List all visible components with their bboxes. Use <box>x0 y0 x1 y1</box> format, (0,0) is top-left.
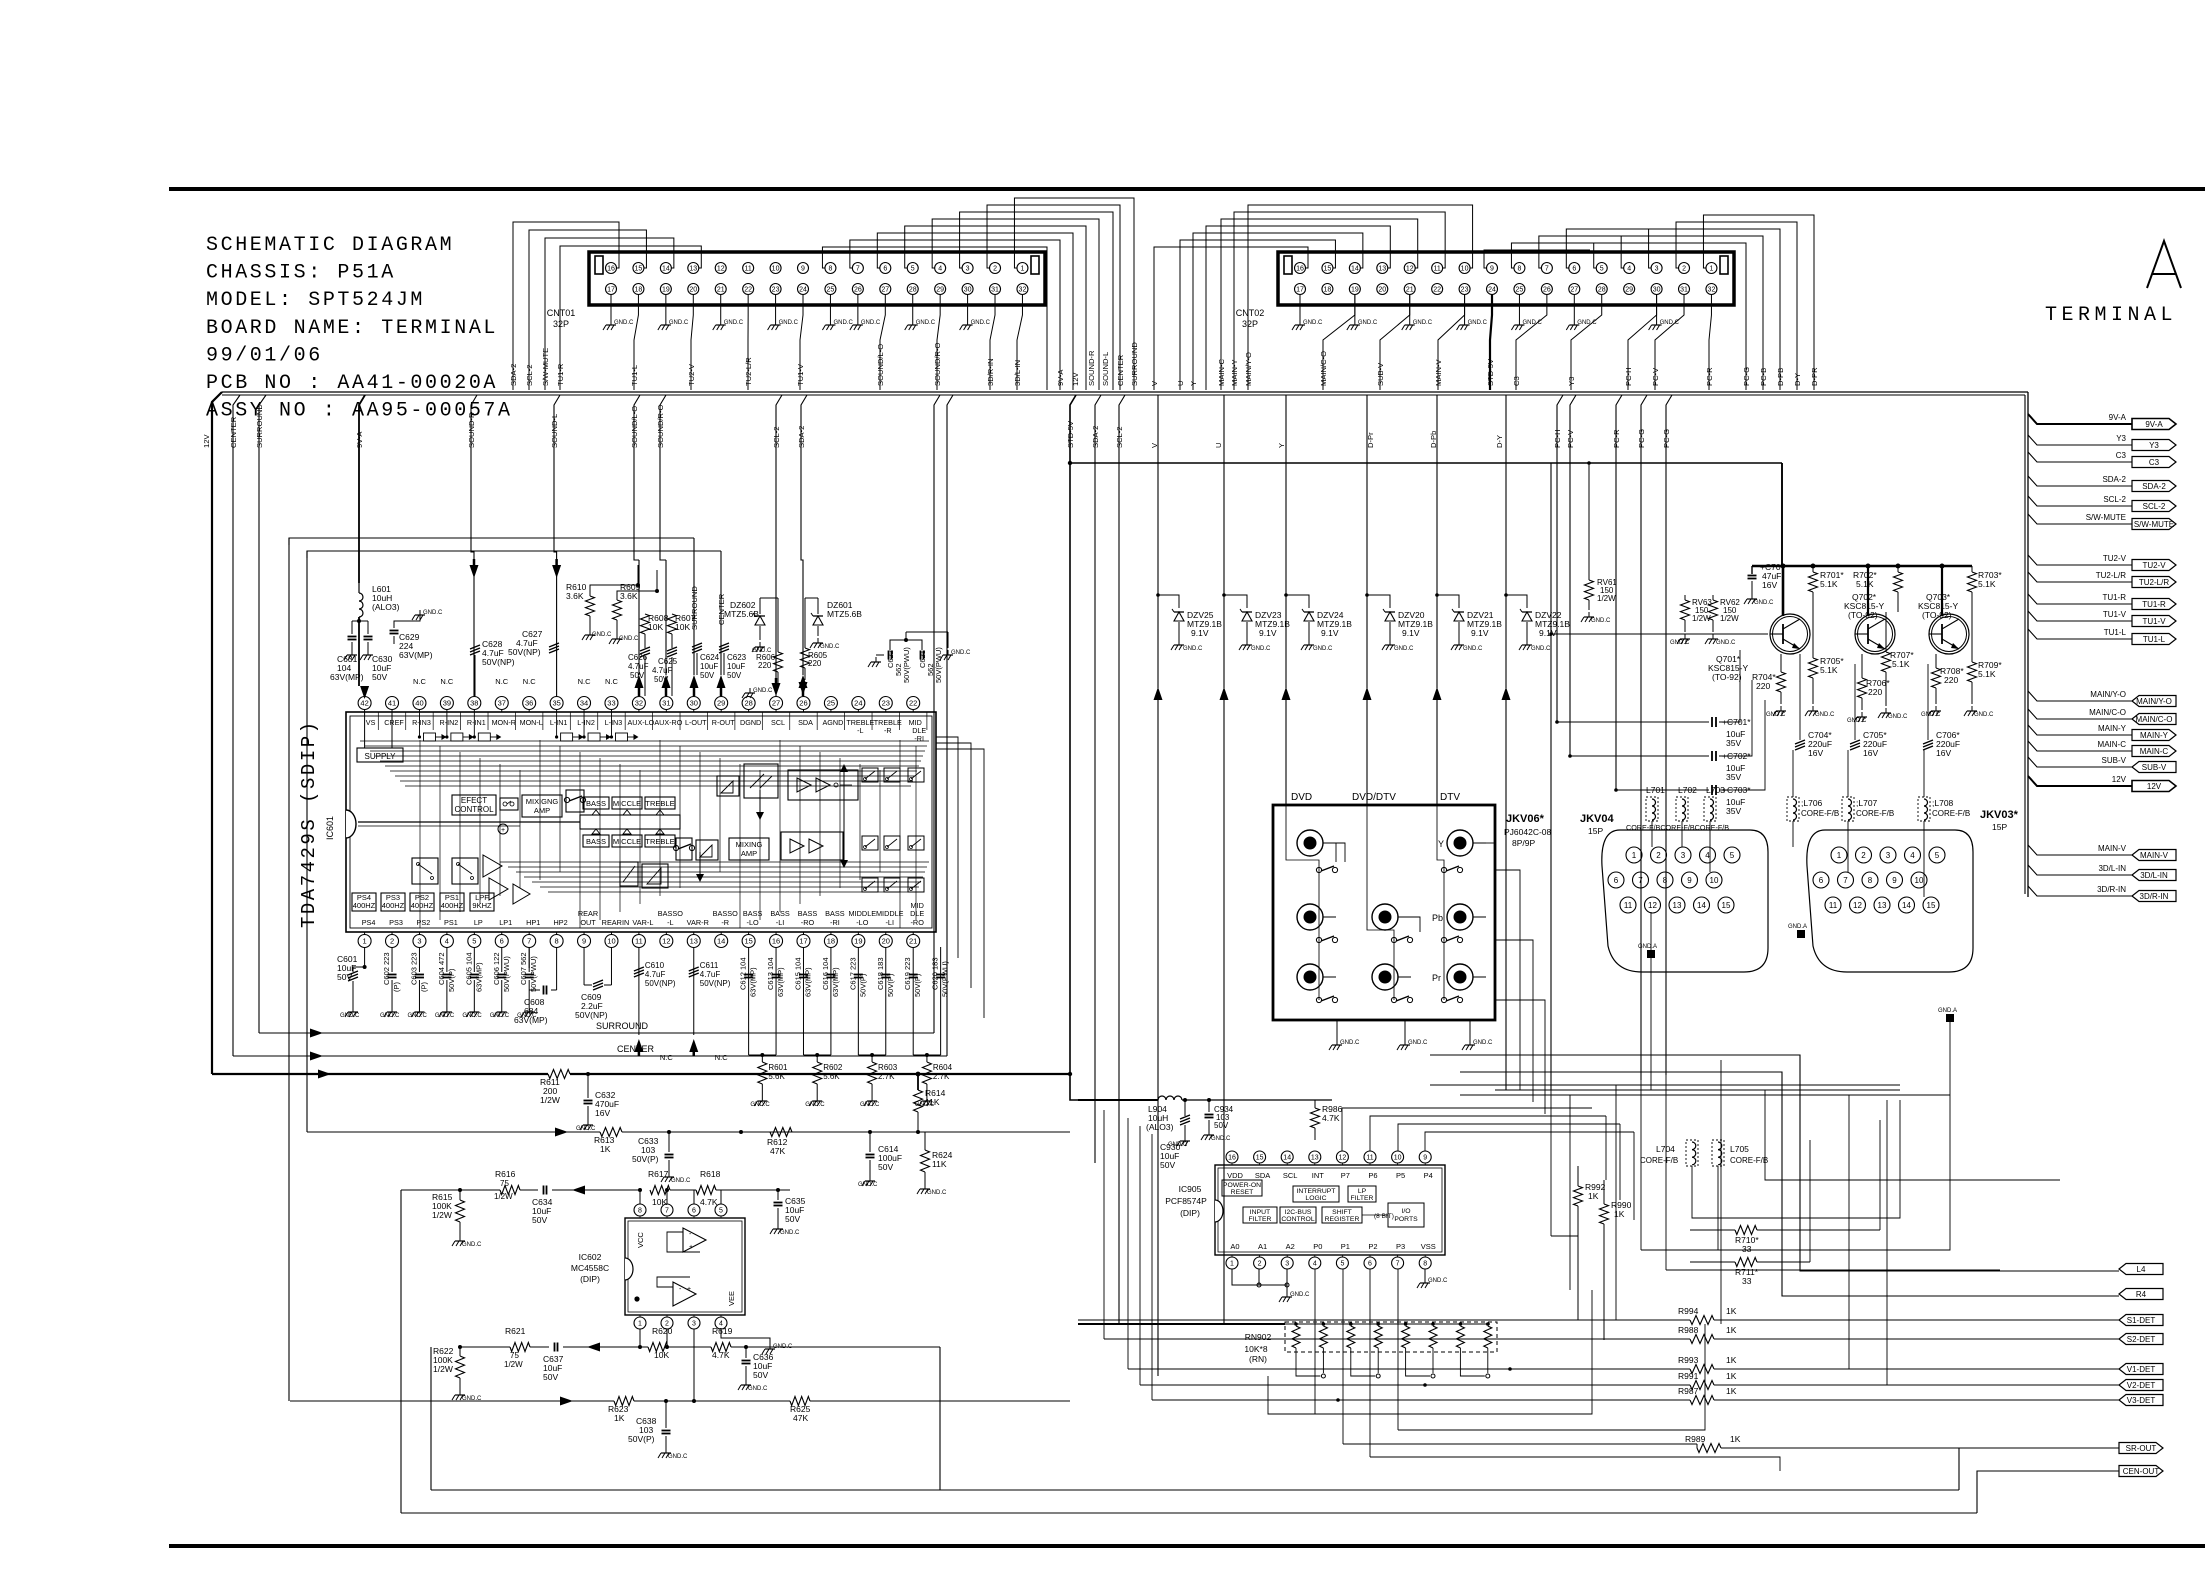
ground under connector pin <box>610 294 612 320</box>
resistor R605 <box>801 648 810 668</box>
svg-text:9: 9 <box>1892 876 1897 885</box>
IC601 pin 40 <box>413 697 426 710</box>
svg-text:1: 1 <box>1020 266 1024 273</box>
svg-text:15: 15 <box>1927 901 1936 910</box>
IC601 interior bus lines horizontal <box>360 740 929 742</box>
capacitor C615 / C616 and resistor R602 <box>802 947 804 1055</box>
svg-text:GND.C: GND.C <box>1463 646 1483 652</box>
IC601 pin 26 <box>797 697 810 710</box>
svg-text:5.1K: 5.1K <box>1978 669 1996 679</box>
resistor R990 <box>1600 1204 1609 1224</box>
svg-text:9.1V: 9.1V <box>1539 628 1557 638</box>
terminal flag CEN-OUT <box>2119 1466 2163 1477</box>
svg-text:VDD: VDD <box>1227 1171 1243 1180</box>
svg-text:R616: R616 <box>495 1169 516 1179</box>
svg-text:GND.C: GND.C <box>780 1230 800 1236</box>
svg-text:DVD/DTV: DVD/DTV <box>1352 792 1396 803</box>
svg-text:9.1V: 9.1V <box>1471 628 1489 638</box>
capacitor C621 <box>920 651 922 660</box>
svg-text:GND.A: GND.A <box>1788 924 1807 930</box>
IC601 vertical arrow pair right <box>843 772 845 860</box>
svg-text:2: 2 <box>993 266 997 273</box>
svg-text:7: 7 <box>1545 266 1549 273</box>
svg-text:CENTER: CENTER <box>617 1044 655 1054</box>
IC905 pin 8 <box>1419 1257 1431 1269</box>
svg-text:R602: R602 <box>823 1063 843 1072</box>
svg-text:35V: 35V <box>1726 772 1741 782</box>
svg-text:16: 16 <box>1296 266 1304 273</box>
fat arrow <box>1157 595 1159 688</box>
svg-text:12: 12 <box>1853 901 1862 910</box>
svg-text:TERMINAL: TERMINAL <box>2045 304 2177 327</box>
svg-text:R-IN1: R-IN1 <box>467 718 486 727</box>
svg-text:220: 220 <box>758 661 772 670</box>
svg-text:4: 4 <box>938 266 942 273</box>
capacitor C624 <box>692 643 702 647</box>
capacitor C622 <box>888 651 890 660</box>
IC601 pin 23 <box>879 697 892 710</box>
svg-text:18: 18 <box>827 937 835 946</box>
svg-text:TU1-L: TU1-L <box>2104 628 2127 637</box>
capacitor C629 <box>394 614 420 628</box>
svg-text:N.C: N.C <box>523 677 537 686</box>
svg-text:SDA-2: SDA-2 <box>509 364 518 386</box>
wire <box>513 222 619 390</box>
svg-text:VAR-R: VAR-R <box>687 918 709 927</box>
CNT01 pin 1 <box>1017 263 1028 274</box>
IC601 switch sq left <box>412 858 438 884</box>
resistor R610 <box>586 596 595 616</box>
svg-text:MAIN-C: MAIN-C <box>1217 358 1226 386</box>
svg-text:21: 21 <box>909 937 917 946</box>
capacitor C611 <box>693 947 695 1035</box>
wire <box>1649 229 1780 390</box>
CNT02 pin 3 <box>1651 263 1662 274</box>
svg-text:28: 28 <box>909 287 917 294</box>
terminal flag 3D/R-IN <box>2132 891 2176 902</box>
svg-text:Y3: Y3 <box>2149 441 2159 450</box>
svg-text:-RI: -RI <box>830 918 840 927</box>
svg-text:1K: 1K <box>600 1144 611 1154</box>
svg-text:(ALO3): (ALO3) <box>372 602 400 612</box>
svg-text:50V(PWU): 50V(PWU) <box>502 956 511 992</box>
svg-text:MON-L: MON-L <box>520 718 543 727</box>
svg-text:14: 14 <box>717 937 725 946</box>
RCA jack <box>1297 904 1323 930</box>
svg-text:30: 30 <box>964 287 972 294</box>
wire columns PC-H PC-V PC-R PC-G PC-G down <box>1557 395 1563 722</box>
CNT01 pin 8 <box>825 263 836 274</box>
svg-text:14: 14 <box>662 266 670 273</box>
svg-text:1/2W: 1/2W <box>433 1364 453 1374</box>
svg-text:25: 25 <box>827 287 835 294</box>
JKV04 pin 14 <box>1694 897 1710 913</box>
IC601 pin 41 <box>386 697 399 710</box>
svg-text:GND.C: GND.C <box>1313 646 1333 652</box>
svg-text:Pr: Pr <box>1432 973 1441 983</box>
CNT02 pin 1 <box>1706 263 1717 274</box>
terminal flag L4 <box>2119 1264 2163 1275</box>
svg-text:CORE-F/B: CORE-F/B <box>1801 809 1839 818</box>
wire RN902 pair join <box>1296 1348 1320 1376</box>
svg-text:50V: 50V <box>700 671 715 680</box>
switch contact <box>1391 997 1396 1002</box>
svg-text:220: 220 <box>1868 687 1882 697</box>
svg-text:PC-H: PC-H <box>1624 367 1633 386</box>
svg-text:50V(PWU): 50V(PWU) <box>934 647 943 683</box>
svg-text:35V: 35V <box>1726 806 1741 816</box>
ground under connector pin <box>1573 294 1575 320</box>
svg-text:GND.C: GND.C <box>753 688 773 694</box>
CNT02 pin 20 <box>1377 284 1388 295</box>
svg-text:33: 33 <box>1742 1244 1752 1254</box>
CNT01 pin 23 <box>770 284 781 295</box>
svg-text:7: 7 <box>1396 1261 1400 1268</box>
svg-text:C3: C3 <box>2149 458 2160 467</box>
capacitor C930 <box>1183 1098 1187 1102</box>
svg-text:30: 30 <box>690 699 698 708</box>
svg-text:14: 14 <box>1351 266 1359 273</box>
svg-text:GND.C: GND.C <box>1413 320 1433 326</box>
svg-text:MTZ5.6B: MTZ5.6B <box>827 609 862 619</box>
svg-text:31: 31 <box>991 287 999 294</box>
JKV04 pin 12 <box>1645 897 1661 913</box>
svg-text:CONTROL: CONTROL <box>454 805 494 814</box>
svg-text:GND.C: GND.C <box>916 320 936 326</box>
wire CEN-OUT feed <box>1370 1457 1780 1471</box>
wire CENTER line <box>233 1055 947 1057</box>
terminal flag TU1-V <box>2132 616 2176 627</box>
JKV03 pin 4 <box>1905 847 1921 863</box>
svg-text:16: 16 <box>772 937 780 946</box>
svg-text:+: + <box>501 827 505 834</box>
JKV04 pin 1 <box>1626 847 1642 863</box>
svg-text:63V(MP): 63V(MP) <box>776 967 785 997</box>
svg-text:(DIP): (DIP) <box>1180 1208 1200 1218</box>
svg-text:3D/L-IN: 3D/L-IN <box>2098 864 2126 873</box>
svg-text:;L708: ;L708 <box>1932 798 1954 808</box>
svg-text:8: 8 <box>1423 1261 1427 1268</box>
RN902 resistor 4 <box>1376 1322 1380 1326</box>
bus rail horizontal <box>222 391 2028 393</box>
CNT02 pin 24 <box>1487 284 1498 295</box>
terminal flag 12V <box>2132 781 2176 792</box>
svg-text:9.1V: 9.1V <box>1402 628 1420 638</box>
svg-text:C620 183: C620 183 <box>931 957 940 990</box>
wire RV61 top to 12V line <box>1588 463 1590 560</box>
capacitor C706 <box>1923 740 1933 744</box>
ground under connector pin <box>1518 294 1520 320</box>
svg-text:11K: 11K <box>925 1097 940 1107</box>
CNT01 pin 30 <box>962 284 973 295</box>
svg-text:1/2W: 1/2W <box>504 1360 523 1369</box>
svg-text:13: 13 <box>1378 266 1386 273</box>
resistor R606 <box>774 652 783 672</box>
CNT01 pin 12 <box>715 263 726 274</box>
svg-text:GND.C: GND.C <box>1340 1040 1360 1046</box>
IC601 pin 29 <box>715 697 728 710</box>
svg-text:SOUND-R: SOUND-R <box>1087 350 1096 386</box>
svg-text:MAIN-Y: MAIN-Y <box>2140 731 2169 740</box>
JKV04 pin 15 <box>1718 897 1734 913</box>
JKV03 pin 1 <box>1831 847 1847 863</box>
svg-text:32P: 32P <box>553 319 569 329</box>
resistor R703 <box>1971 566 1973 572</box>
CNT01 pin 3 <box>962 263 973 274</box>
svg-text:12: 12 <box>1406 266 1414 273</box>
svg-text:220: 220 <box>808 659 822 668</box>
svg-text:21: 21 <box>1406 287 1414 294</box>
svg-text:4.7K: 4.7K <box>712 1350 730 1360</box>
wire RN902 pair join <box>1406 1348 1430 1376</box>
terminal flag TU1-L <box>2132 634 2176 645</box>
svg-text:C604 472: C604 472 <box>437 952 446 985</box>
switch contact <box>1391 937 1396 942</box>
IC601 pin 15 <box>742 935 755 948</box>
zener DZV25 <box>1157 395 1159 595</box>
resistor R614 <box>917 1074 919 1090</box>
svg-text:;L706: ;L706 <box>1801 798 1823 808</box>
svg-text:TU2-V: TU2-V <box>2103 554 2127 563</box>
svg-text:TU1-V: TU1-V <box>2142 617 2166 626</box>
IC601 switch box 1 <box>566 790 584 812</box>
svg-text:A2: A2 <box>1286 1242 1295 1251</box>
svg-text:REARIN: REARIN <box>602 918 630 927</box>
CNT01 pin 24 <box>798 284 809 295</box>
CNT01 pin 22 <box>743 284 754 295</box>
wire SDA-2 col <box>1095 395 1101 1163</box>
svg-text:TU1-R: TU1-R <box>556 363 565 386</box>
svg-text:GND.C: GND.C <box>592 632 612 638</box>
wire SCL-2 column to pin 27 <box>776 395 782 560</box>
svg-text:10: 10 <box>1394 1155 1402 1162</box>
svg-text:S/W-MUTE: S/W-MUTE <box>2086 513 2126 522</box>
terminal flag V2-DET <box>2119 1380 2163 1391</box>
svg-text:C624: C624 <box>700 653 720 662</box>
svg-text:GND.C: GND.C <box>435 1013 455 1019</box>
svg-text:12: 12 <box>717 266 725 273</box>
svg-text:L-OUT: L-OUT <box>685 718 707 727</box>
IC601 down arrows interior <box>759 790 761 812</box>
svg-text:CEN-OUT: CEN-OUT <box>2123 1467 2160 1476</box>
connector JKV03 body <box>1807 830 1973 972</box>
svg-text:3D/L-IN: 3D/L-IN <box>1013 360 1022 386</box>
wire <box>877 233 1073 390</box>
svg-text:37: 37 <box>498 699 506 708</box>
svg-text:400HZ: 400HZ <box>353 901 376 910</box>
IC602 pins top <box>634 1204 646 1216</box>
svg-text:19: 19 <box>854 937 862 946</box>
CNT01 pin 11 <box>743 263 754 274</box>
IC905 SHIFT REGISTER box <box>1322 1207 1362 1223</box>
resistor R705 <box>1812 612 1814 658</box>
svg-text:EFECT: EFECT <box>461 796 487 805</box>
svg-text:23: 23 <box>772 287 780 294</box>
svg-text:PC-B: PC-B <box>1759 368 1768 386</box>
svg-text:P3: P3 <box>1396 1242 1405 1251</box>
wire SURROUND col pin30 <box>693 538 695 675</box>
svg-text:24: 24 <box>799 287 807 294</box>
svg-text:3: 3 <box>1655 266 1659 273</box>
svg-text:5.1K: 5.1K <box>1856 579 1874 589</box>
svg-text:1: 1 <box>1230 1261 1234 1268</box>
arrow on surround line <box>310 1029 323 1038</box>
JKV04 pin 7 <box>1633 872 1649 888</box>
CNT01 pin 4 <box>935 263 946 274</box>
IC601 pin 12 <box>660 935 673 948</box>
IC601 eq band bar <box>580 815 680 829</box>
svg-text:24: 24 <box>1488 287 1496 294</box>
svg-text:20: 20 <box>882 937 890 946</box>
wire y1190 line <box>401 1189 500 1191</box>
switch contact <box>1441 867 1446 872</box>
JKV04 pin 11 <box>1620 897 1636 913</box>
svg-text:SURROUND: SURROUND <box>1130 342 1139 386</box>
JKV04 pin 2 <box>1651 847 1667 863</box>
CNT02 pin 29 <box>1624 284 1635 295</box>
svg-text:26: 26 <box>799 699 807 708</box>
IC602 opamp A triangle <box>683 1228 706 1252</box>
ground under connector pin <box>829 294 831 320</box>
svg-text:12: 12 <box>662 937 670 946</box>
svg-text:1K: 1K <box>1588 1191 1599 1201</box>
JKV03 gnd squares <box>1797 930 1805 938</box>
capacitor C707 <box>1751 566 1753 574</box>
inductors L706 L707 L708 <box>1787 797 1799 821</box>
svg-text:15: 15 <box>635 266 643 273</box>
svg-text:RN902: RN902 <box>1245 1332 1272 1342</box>
zener DZV23 <box>1223 395 1225 595</box>
svg-text:75: 75 <box>500 1179 509 1188</box>
wire bold 12V filter line y1074 <box>212 1073 548 1075</box>
terminal flag TU2-V <box>2132 560 2176 571</box>
svg-text:TU1-V: TU1-V <box>2103 610 2127 619</box>
ground under connector pin <box>912 294 914 320</box>
IC905 LP FILTER box <box>1348 1186 1376 1202</box>
svg-text:Y: Y <box>1189 381 1198 386</box>
CNT01 pin 10 <box>770 263 781 274</box>
svg-text:GND.C: GND.C <box>1921 712 1941 718</box>
IC601 opamp triangles left-mid <box>483 855 502 877</box>
svg-text:14: 14 <box>1902 901 1911 910</box>
svg-text:-LO: -LO <box>747 918 759 927</box>
capacitor C619 / C620 and resistor R604 <box>912 947 914 1055</box>
svg-text:16V: 16V <box>1808 748 1823 758</box>
svg-text:23: 23 <box>882 699 890 708</box>
RN902 resistor 3 <box>1349 1322 1353 1326</box>
CNT02 pin 19 <box>1349 284 1360 295</box>
svg-text:19: 19 <box>1351 287 1359 294</box>
terminal flag V1-DET <box>2119 1364 2163 1375</box>
RCA jack <box>1372 904 1398 930</box>
wire <box>560 246 701 390</box>
svg-text:R621: R621 <box>505 1326 526 1336</box>
svg-text:GND.C: GND.C <box>1847 718 1867 724</box>
svg-text:38: 38 <box>470 699 478 708</box>
svg-text:R603: R603 <box>878 1063 898 1072</box>
svg-text:12V: 12V <box>202 434 211 448</box>
svg-text:-R: -R <box>721 918 729 927</box>
svg-text:50V: 50V <box>785 1214 800 1224</box>
IC905 POWER-ON RESET box <box>1222 1180 1262 1196</box>
IC601 pin 11 <box>632 935 645 948</box>
fat arrow <box>1505 595 1507 688</box>
svg-text:GND.C: GND.C <box>668 1454 688 1460</box>
svg-text:220: 220 <box>1944 675 1958 685</box>
svg-text:11K: 11K <box>932 1159 947 1169</box>
CNT02 pin 2 <box>1679 263 1690 274</box>
IC905 pin 5 <box>1336 1257 1348 1269</box>
IC601 PS boxes row <box>352 893 376 911</box>
svg-text:R604: R604 <box>933 1063 953 1072</box>
IC905 gnd pin8 <box>1424 1269 1426 1278</box>
resistor R607 <box>668 614 677 634</box>
wire RN902 pair join <box>1460 1348 1484 1376</box>
svg-text:MAIN-V: MAIN-V <box>2098 844 2127 853</box>
IC601 EFECT CONTROL box <box>452 795 496 815</box>
resistor R711 <box>1690 1261 1735 1263</box>
svg-text:3D/R-IN: 3D/R-IN <box>2140 892 2169 901</box>
resistor RV63 <box>1684 595 1686 600</box>
IC601 top label separators <box>377 712 379 730</box>
svg-text:33: 33 <box>1742 1276 1752 1286</box>
wire IC905 pin outputs down <box>1314 1269 1316 1414</box>
svg-text:14: 14 <box>1697 901 1706 910</box>
IC601 small in arrows row <box>418 712 420 737</box>
svg-text:4: 4 <box>445 937 449 946</box>
svg-text:CNT02: CNT02 <box>1236 308 1265 318</box>
connector JKV06 DVD block body <box>1273 805 1495 1020</box>
svg-text:9.1V: 9.1V <box>1321 628 1339 638</box>
svg-text:R-OUT: R-OUT <box>712 718 735 727</box>
svg-text:18: 18 <box>1324 287 1332 294</box>
svg-text:-L: -L <box>857 726 863 735</box>
svg-text:1K: 1K <box>1730 1434 1741 1444</box>
IC601 pin 13 <box>687 935 700 948</box>
terminal flag C3 <box>2132 457 2176 468</box>
wire <box>1248 205 1473 390</box>
IC905 I2C-BUS CONTROL box <box>1280 1207 1316 1223</box>
IC905 pin 14 <box>1281 1151 1293 1163</box>
wire <box>529 230 646 390</box>
svg-text:GND.C: GND.C <box>1358 320 1378 326</box>
svg-text:5.1K: 5.1K <box>1892 659 1910 669</box>
CNT02 pin 23 <box>1459 284 1470 295</box>
RN902 resistor 1 <box>1294 1322 1298 1326</box>
IC601 MIXING AMP box lower <box>729 838 769 860</box>
svg-text:50V: 50V <box>543 1372 558 1382</box>
svg-text:GND.C: GND.C <box>614 320 634 326</box>
svg-text:P2: P2 <box>1368 1242 1377 1251</box>
IC905 pin 3 <box>1281 1257 1293 1269</box>
svg-text:-LO: -LO <box>856 918 868 927</box>
svg-text:15P: 15P <box>1992 822 2007 832</box>
svg-text:TU2-V: TU2-V <box>2142 561 2166 570</box>
svg-text:FILTER: FILTER <box>1351 1195 1374 1202</box>
svg-text:BASSO: BASSO <box>713 909 738 918</box>
wires from caps C704-706 to L706-708 <box>1792 750 1794 797</box>
svg-text:S1-DET: S1-DET <box>2127 1316 2156 1325</box>
IC601 pin 1 <box>358 935 371 948</box>
top border line <box>169 187 2205 191</box>
terminal flag TU2-L/R <box>2132 577 2176 588</box>
svg-text:GND.C: GND.C <box>805 1102 825 1108</box>
CNT02 pin 21 <box>1404 284 1415 295</box>
IC602 pin1/2 wires down <box>639 1329 641 1347</box>
svg-text:8: 8 <box>1517 266 1521 273</box>
CNT02 pin 30 <box>1651 284 1662 295</box>
svg-text:CNT01: CNT01 <box>547 308 576 318</box>
